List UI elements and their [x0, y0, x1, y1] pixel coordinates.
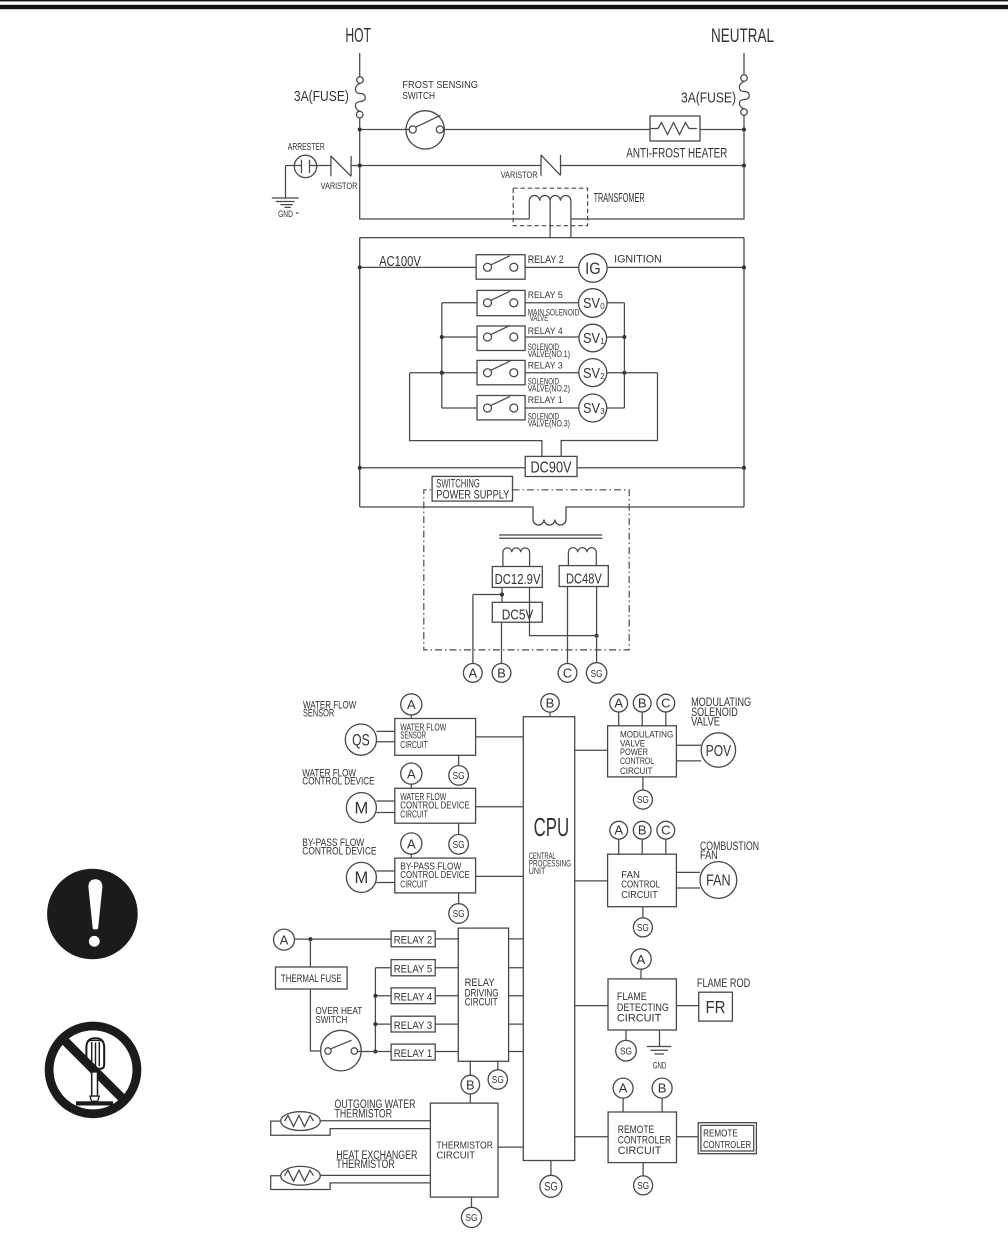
svg-text:CIRCUIT: CIRCUIT: [436, 1149, 475, 1161]
svg-text:TRANSFOMER: TRANSFOMER: [594, 190, 645, 205]
svg-text:B: B: [497, 666, 506, 681]
svg-text:CONTROL: CONTROL: [620, 756, 654, 766]
svg-text:A: A: [614, 823, 623, 838]
svg-text:CONTROL DEVICE: CONTROL DEVICE: [302, 845, 376, 857]
svg-text:B: B: [466, 1077, 475, 1092]
svg-text:CIRCUIT: CIRCUIT: [618, 1145, 662, 1157]
svg-text:A: A: [407, 766, 416, 781]
svg-text:VALVE: VALVE: [691, 715, 720, 729]
svg-text:A: A: [614, 696, 623, 711]
svg-text:SG: SG: [637, 794, 649, 806]
svg-text:3A(FUSE): 3A(FUSE): [681, 90, 736, 107]
svg-text:SG: SG: [637, 922, 649, 934]
svg-text:RELAY 2: RELAY 2: [528, 254, 564, 266]
svg-text:FAN: FAN: [706, 873, 731, 890]
svg-text:SV: SV: [583, 366, 600, 382]
svg-text:3A(FUSE): 3A(FUSE): [294, 88, 349, 105]
svg-text:IG: IG: [585, 260, 601, 278]
svg-text:QS: QS: [352, 730, 370, 749]
svg-text:RELAY 2: RELAY 2: [394, 935, 433, 947]
svg-text:GND: GND: [278, 209, 293, 220]
svg-text:A: A: [280, 932, 289, 947]
svg-text:RELAY 5: RELAY 5: [528, 290, 563, 301]
svg-text:A: A: [407, 836, 416, 851]
svg-text:THERMISTOR: THERMISTOR: [336, 1159, 395, 1171]
svg-text:CIRCUIT: CIRCUIT: [465, 997, 498, 1009]
svg-text:M: M: [355, 869, 369, 887]
svg-text:SWITCH: SWITCH: [402, 91, 435, 102]
svg-text:VALVE(NO.1): VALVE(NO.1): [528, 348, 570, 359]
svg-text:DC12.9V: DC12.9V: [495, 571, 541, 588]
svg-text:A: A: [468, 666, 477, 681]
svg-text:CONTROLER: CONTROLER: [703, 1139, 751, 1151]
svg-text:FLAME ROD: FLAME ROD: [697, 976, 750, 990]
svg-text:VALVE: VALVE: [530, 314, 549, 323]
svg-text:FR: FR: [706, 997, 726, 1017]
svg-text:CIRCUIT: CIRCUIT: [620, 766, 653, 776]
svg-text:THERMISTOR: THERMISTOR: [335, 1108, 393, 1120]
svg-text:ANTI-FROST HEATER: ANTI-FROST HEATER: [626, 145, 727, 161]
svg-text:B: B: [638, 823, 647, 838]
svg-text:VARISTOR: VARISTOR: [501, 170, 538, 180]
svg-text:C: C: [661, 823, 670, 838]
svg-text:C: C: [661, 696, 670, 711]
svg-text:CIRCUIT: CIRCUIT: [617, 1013, 662, 1025]
svg-text:FAN: FAN: [700, 848, 718, 862]
svg-text:GND: GND: [653, 1060, 667, 1070]
svg-text:IGNITION: IGNITION: [614, 253, 662, 265]
svg-text:3: 3: [600, 407, 605, 416]
svg-text:VALVE(NO.3): VALVE(NO.3): [528, 417, 570, 428]
svg-text:RELAY 4: RELAY 4: [394, 992, 433, 1004]
svg-text:HOT: HOT: [345, 24, 371, 47]
svg-text:CIRCUIT: CIRCUIT: [621, 890, 658, 901]
svg-text:VARISTOR: VARISTOR: [321, 181, 358, 191]
svg-text:SG: SG: [466, 1212, 478, 1224]
svg-text:2: 2: [600, 372, 605, 381]
svg-text:1: 1: [600, 337, 605, 346]
svg-text:SG: SG: [453, 908, 465, 920]
svg-text:CPU: CPU: [534, 814, 570, 842]
svg-text:A: A: [407, 697, 416, 712]
svg-text:DC5V: DC5V: [502, 607, 534, 624]
svg-text:M: M: [355, 799, 369, 817]
svg-text:ARRESTER: ARRESTER: [288, 142, 325, 153]
svg-text:0: 0: [600, 302, 605, 311]
svg-text:THERMAL FUSE: THERMAL FUSE: [281, 973, 342, 985]
svg-text:VALVE(NO.2): VALVE(NO.2): [528, 382, 570, 393]
svg-text:CONTROL DEVICE: CONTROL DEVICE: [302, 776, 374, 788]
svg-text:C: C: [563, 666, 572, 681]
svg-text:A: A: [619, 1081, 628, 1096]
svg-text:DC90V: DC90V: [531, 460, 573, 477]
svg-text:RELAY 4: RELAY 4: [528, 326, 564, 337]
svg-text:SG: SG: [492, 1074, 504, 1086]
svg-text:SV: SV: [583, 331, 600, 347]
svg-text:B: B: [638, 696, 647, 711]
svg-text:SG: SG: [453, 839, 465, 851]
svg-text:RELAY 1: RELAY 1: [528, 395, 563, 406]
svg-text:B: B: [658, 1081, 667, 1096]
svg-text:SV: SV: [583, 401, 600, 417]
svg-text:B: B: [546, 696, 555, 711]
svg-text:POV: POV: [706, 743, 732, 760]
svg-text:SWITCH: SWITCH: [315, 1014, 347, 1026]
svg-text:SG: SG: [637, 1180, 649, 1192]
svg-text:SG: SG: [544, 1181, 558, 1193]
svg-text:CIRCUIT: CIRCUIT: [400, 879, 428, 890]
svg-text:DC48V: DC48V: [566, 571, 602, 588]
svg-text:A: A: [637, 952, 646, 967]
svg-text:SV: SV: [583, 296, 600, 312]
svg-text:RELAY 5: RELAY 5: [394, 963, 433, 975]
svg-text:CIRCUIT: CIRCUIT: [400, 810, 428, 821]
svg-text:RELAY 3: RELAY 3: [528, 360, 563, 371]
svg-text:POWER SUPPLY: POWER SUPPLY: [436, 488, 509, 502]
svg-text:SG: SG: [591, 668, 603, 680]
svg-text:SG: SG: [453, 770, 465, 782]
svg-text:RELAY 1: RELAY 1: [394, 1048, 433, 1060]
svg-text:RELAY 3: RELAY 3: [394, 1020, 433, 1032]
svg-text:CIRCUIT: CIRCUIT: [400, 740, 428, 751]
svg-text:SENSOR: SENSOR: [303, 708, 334, 720]
svg-text:UNIT: UNIT: [529, 866, 546, 876]
svg-text:FROST SENSING: FROST SENSING: [402, 80, 478, 91]
svg-text:SG: SG: [620, 1045, 632, 1057]
svg-text:NEUTRAL: NEUTRAL: [711, 25, 774, 47]
